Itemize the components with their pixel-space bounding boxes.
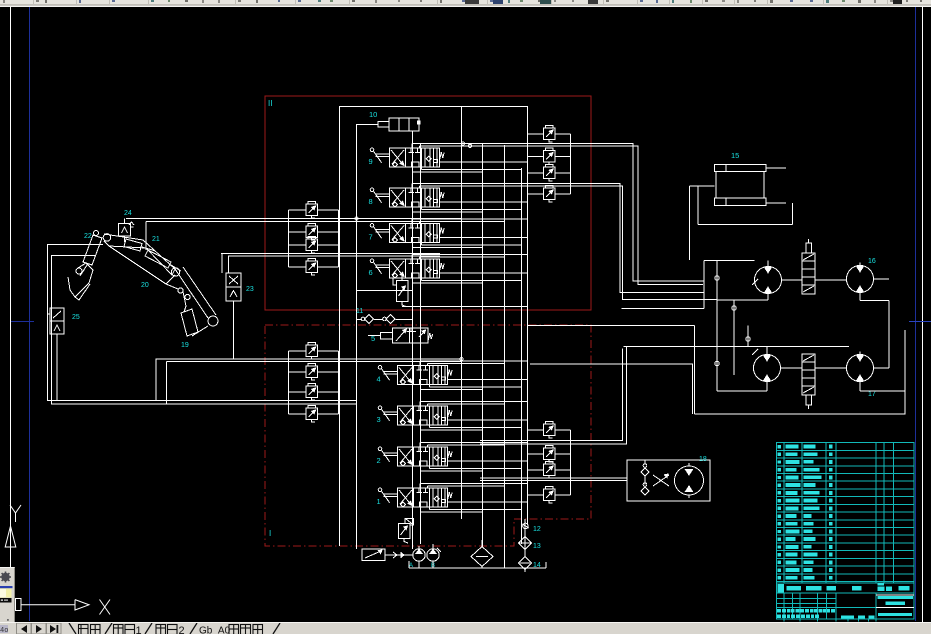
excavator enclosure rect inner	[52, 256, 96, 405]
wire	[289, 231, 307, 233]
paper border left	[10, 7, 12, 598]
wire	[421, 470, 483, 472]
valve 5 port block	[381, 332, 393, 338]
wire to pump 18	[480, 477, 627, 479]
wire	[555, 429, 571, 431]
wire drop	[56, 334, 58, 401]
wire	[318, 266, 339, 268]
wire	[318, 413, 339, 415]
brake valve stem bottom	[806, 395, 812, 405]
wire	[440, 161, 528, 163]
wire	[402, 306, 527, 308]
wire pair to top right	[463, 144, 704, 282]
wire bus x420	[420, 143, 422, 544]
wire	[289, 413, 307, 415]
valve 7 (directional control valve)	[370, 224, 444, 243]
wire bus x356	[356, 124, 358, 549]
wire	[421, 388, 483, 390]
wire stub	[427, 404, 429, 406]
wire	[528, 193, 544, 195]
wire	[624, 346, 850, 348]
valve 25 triangle	[54, 325, 60, 331]
tick	[752, 279, 758, 285]
wire stub	[419, 146, 421, 148]
wire	[318, 244, 339, 246]
wire	[396, 319, 413, 321]
brake valve top	[802, 253, 815, 294]
wire stub	[421, 207, 423, 210]
wire	[644, 476, 646, 485]
wire	[528, 494, 544, 496]
UCS Y axis line	[10, 531, 12, 598]
tank line	[409, 567, 546, 569]
wire	[528, 453, 544, 455]
wire	[420, 145, 505, 147]
wire	[413, 171, 483, 173]
wire	[420, 256, 505, 258]
wire	[555, 193, 571, 195]
wire	[528, 172, 544, 174]
main filter diamond	[471, 547, 493, 567]
title bar cyan	[886, 602, 906, 606]
wire	[704, 260, 755, 262]
wire	[289, 209, 307, 211]
wire to cylinder 21	[145, 222, 147, 240]
wire pair lower	[480, 349, 622, 441]
wire stub	[427, 363, 429, 365]
wire	[413, 211, 483, 213]
wire stub	[411, 219, 413, 224]
palette black strip	[0, 598, 12, 603]
wire pair 2a	[463, 184, 705, 293]
wire	[440, 237, 528, 239]
table total row	[776, 582, 914, 584]
wire stub	[420, 425, 422, 430]
wire bracket	[288, 351, 290, 414]
wire stub	[420, 385, 422, 390]
wire	[530, 364, 693, 414]
wire	[432, 544, 434, 549]
wire	[357, 319, 363, 321]
wire stub	[412, 243, 414, 248]
throttle cross	[653, 475, 669, 486]
parts list table frame	[776, 443, 914, 619]
wire stub	[419, 484, 421, 489]
wire supply line	[126, 218, 461, 220]
valve 3 (directional control valve)	[378, 406, 452, 425]
wire supply line	[228, 255, 440, 257]
tab glyphs 模型	[79, 625, 101, 634]
valve 8 (directional control valve)	[370, 188, 444, 207]
wire stub	[421, 243, 423, 246]
wire bracket	[288, 210, 290, 267]
wire	[716, 261, 718, 392]
paper border right	[922, 7, 924, 622]
wire	[717, 299, 768, 301]
wire stub	[420, 466, 422, 471]
wire	[555, 469, 571, 471]
wire	[874, 278, 889, 280]
wire	[481, 567, 483, 569]
wire	[698, 224, 793, 226]
excavator enclosure rect outer	[48, 245, 104, 401]
wire	[524, 570, 526, 573]
relief valve below valve 1	[399, 524, 411, 539]
wire	[428, 362, 505, 364]
cylinder 19 pin	[178, 288, 183, 293]
title bar cyan	[878, 596, 913, 599]
pump B	[427, 549, 439, 561]
pump 18 circle	[675, 466, 704, 495]
bucket pin circle	[76, 268, 82, 274]
junction	[468, 144, 471, 147]
boom lower chord	[109, 246, 175, 284]
wire stub	[420, 507, 422, 512]
wire stub	[419, 402, 421, 407]
valve 24 triangle	[122, 227, 128, 233]
wire stub	[419, 257, 421, 259]
wire	[767, 297, 769, 301]
valve 10 (3-section pilot valve)	[389, 118, 419, 131]
junction	[355, 217, 358, 220]
tick	[752, 349, 758, 355]
section box I (red dash-dot, notched)	[265, 325, 591, 546]
wire stub in 18	[644, 460, 646, 465]
brake valve bottom	[802, 354, 815, 395]
pump 18 arrow top	[686, 470, 693, 476]
wire	[524, 550, 526, 557]
wire	[859, 296, 861, 301]
relief valve stack II-left	[306, 202, 318, 219]
wire pair 2b	[470, 186, 717, 299]
frame centre tick left	[11, 321, 34, 323]
junction circle	[715, 276, 719, 280]
wire	[422, 209, 522, 211]
bucket outline	[68, 263, 93, 297]
relief valve stack II-right	[544, 126, 556, 143]
link line	[192, 326, 208, 336]
wire	[448, 379, 528, 381]
UCS origin box	[16, 599, 22, 611]
cylinder 15 rod line	[766, 202, 786, 204]
wire stub	[427, 486, 429, 488]
wire	[420, 360, 527, 362]
wire	[766, 347, 768, 352]
elbow circle	[171, 268, 179, 276]
cylinder 22 pin	[94, 231, 99, 236]
cylinder 15	[715, 165, 767, 172]
wire	[318, 350, 339, 352]
wire	[420, 483, 527, 485]
wire	[289, 350, 307, 352]
wire	[422, 244, 522, 246]
palette swatch	[0, 589, 12, 598]
wire bus x527	[527, 106, 529, 525]
relief pilot flag	[405, 519, 414, 526]
wire	[528, 324, 695, 326]
wire	[555, 155, 571, 157]
palette dots	[7, 619, 9, 621]
cylinder 21 body	[124, 239, 142, 251]
wire	[440, 272, 528, 274]
junction circle	[746, 337, 750, 341]
wire	[413, 246, 483, 248]
wire	[528, 429, 544, 431]
wire stub	[412, 207, 414, 212]
wire	[555, 494, 571, 496]
valve 6 (directional control valve)	[370, 259, 444, 278]
cylinder 20 rod	[171, 265, 181, 271]
tab 布局2	[156, 625, 177, 634]
table column lines	[783, 443, 785, 583]
valve 10 port block	[378, 122, 389, 128]
wire	[289, 266, 307, 268]
wire riser	[221, 254, 223, 274]
pilot relief valve bottom left	[362, 549, 385, 561]
valve 5 (directional valve)	[392, 328, 428, 343]
wire	[318, 371, 339, 373]
wire	[448, 460, 528, 462]
wire	[418, 561, 420, 568]
title block subgrid	[783, 593, 785, 619]
wire	[622, 308, 705, 310]
bucket tooth	[75, 284, 90, 300]
wire	[289, 371, 307, 373]
wire bus x504	[504, 145, 506, 568]
wire bracket	[338, 351, 340, 414]
wire	[422, 169, 522, 171]
wire bracket	[570, 430, 572, 495]
relief valve stack I-left	[306, 343, 318, 360]
relief pilot loop	[393, 278, 402, 285]
motor enclosure	[695, 330, 906, 414]
frame centre tick right	[909, 321, 931, 323]
toolbar strip	[0, 0, 931, 5]
wire stub	[412, 278, 414, 283]
wire stub	[419, 221, 421, 223]
wire stub	[427, 445, 429, 447]
relief valve stack I-right	[544, 422, 556, 439]
wire	[374, 319, 383, 321]
wire bus x482	[482, 143, 484, 547]
wire	[48, 313, 51, 315]
wire	[528, 133, 544, 135]
wire stub	[421, 278, 423, 281]
wire stub	[419, 443, 421, 448]
wire	[874, 367, 889, 369]
wire	[420, 442, 527, 444]
nav buttons	[17, 623, 62, 634]
wire	[815, 367, 846, 369]
cooler 14	[519, 557, 532, 570]
wire	[318, 209, 339, 211]
signature row text blocks	[777, 609, 781, 613]
wire	[481, 540, 483, 547]
wire	[448, 501, 528, 503]
wire bus x339	[339, 106, 341, 546]
wire	[420, 220, 505, 222]
wire	[368, 335, 381, 337]
title bar cyan	[878, 613, 912, 616]
motor 16 pair	[755, 264, 782, 297]
wire bracket	[527, 134, 529, 194]
cylinder 20 (stick cylinder)	[145, 250, 171, 268]
wire return line	[51, 403, 357, 405]
wire	[420, 401, 527, 403]
wire stub	[429, 385, 431, 388]
tab 布局1	[114, 625, 135, 634]
wire	[689, 186, 691, 260]
wire	[555, 172, 571, 174]
wire	[703, 261, 705, 309]
table row lines	[776, 449, 914, 451]
wire	[412, 254, 527, 256]
UCS X glyph	[100, 600, 111, 615]
valve 23 (double pilot check)	[226, 273, 241, 301]
tab 标题栏	[229, 625, 263, 634]
wire bus x521	[521, 168, 523, 544]
wire	[412, 143, 527, 145]
title right white separators	[876, 594, 914, 596]
brake valve stem	[806, 243, 812, 253]
wire	[747, 325, 749, 346]
wire	[555, 133, 571, 135]
UCS icon	[5, 505, 110, 615]
wire bracket	[527, 430, 529, 495]
valve 2 (directional control valve)	[378, 447, 452, 466]
wire bus x412	[412, 131, 414, 549]
wire to valve 10	[357, 124, 379, 126]
tool palette fragment	[0, 567, 15, 634]
wire supply line	[156, 358, 462, 360]
wire	[766, 385, 768, 392]
wire	[412, 183, 527, 185]
cylinder 22 body	[83, 235, 102, 265]
wire riser	[228, 256, 230, 273]
wire	[733, 300, 735, 375]
pump A	[413, 549, 425, 561]
palette blue divider	[0, 586, 13, 588]
wire block top	[340, 106, 528, 108]
wire	[767, 261, 769, 264]
cylinder 15 rod line	[766, 167, 786, 169]
wire	[428, 444, 505, 446]
wire	[440, 201, 528, 203]
UCS Y arrowhead	[5, 526, 16, 547]
wire	[421, 511, 483, 513]
wire	[888, 301, 890, 369]
wire	[528, 155, 544, 157]
valve 23 triangle	[230, 291, 237, 298]
frame line right blue	[915, 7, 917, 621]
wire drop	[166, 362, 168, 405]
wire	[357, 290, 413, 292]
wire bracket	[338, 210, 340, 267]
wire	[555, 453, 571, 455]
wire supply line	[146, 221, 461, 223]
section box II (red dash-dot)	[265, 96, 591, 310]
junction circle	[715, 361, 719, 365]
motor 17 pair	[754, 352, 781, 385]
junction	[461, 142, 464, 145]
wire	[792, 203, 794, 225]
pump unit 18 enclosure	[627, 460, 710, 501]
wire bus x461	[461, 106, 463, 519]
wire	[859, 382, 861, 391]
wire with arrows	[385, 554, 413, 556]
wire supply line	[221, 253, 440, 255]
UCS Y glyph	[10, 505, 21, 513]
wire	[697, 186, 699, 225]
junction	[460, 357, 463, 360]
valve 9 (directional control valve)	[370, 148, 444, 167]
wire	[815, 279, 846, 281]
UCS X arrowhead	[75, 600, 89, 610]
wire	[524, 519, 526, 537]
wire stub	[412, 167, 414, 172]
wire	[430, 468, 522, 470]
stick link lines	[175, 269, 208, 318]
cylinder 21 rod	[142, 247, 154, 251]
wire stub	[429, 466, 431, 469]
wire	[528, 469, 544, 471]
wire	[422, 280, 522, 282]
valve 25 (check valve)	[50, 308, 64, 334]
pump 18 arrow bottom	[686, 486, 693, 492]
wire stub	[419, 361, 421, 366]
UCS X axis line	[21, 604, 75, 606]
tab strip slashes	[69, 623, 280, 634]
frame line left blue	[29, 7, 31, 621]
check diamonds inside 18	[641, 468, 649, 476]
wire stub	[411, 144, 413, 149]
wire	[289, 244, 307, 246]
wire bracket	[570, 134, 572, 194]
wire stub	[429, 425, 431, 428]
wire drop	[233, 301, 235, 359]
wire drop	[694, 325, 696, 414]
cylinder 19 rod	[184, 306, 186, 312]
filter 13	[519, 537, 532, 550]
link line	[183, 292, 186, 306]
wire	[690, 185, 715, 187]
wire	[289, 391, 307, 393]
wire	[717, 390, 767, 392]
wire	[428, 403, 505, 405]
wire	[448, 419, 528, 421]
wire stub	[429, 507, 431, 510]
wire	[318, 391, 339, 393]
wire	[430, 509, 522, 511]
wire stub	[411, 184, 413, 189]
wire	[413, 282, 483, 284]
wire	[428, 485, 505, 487]
link pin	[185, 294, 190, 299]
wire stub	[411, 255, 413, 260]
valve 4 (directional control valve)	[378, 366, 452, 385]
wire stub	[421, 167, 423, 170]
wire	[412, 218, 527, 220]
wire	[418, 546, 420, 549]
wire	[318, 231, 339, 233]
wire	[430, 427, 522, 429]
wire drop	[155, 359, 157, 401]
wire	[860, 300, 889, 302]
wire	[421, 429, 483, 431]
wire	[145, 222, 147, 251]
wire	[432, 561, 434, 568]
wire valve24 to boom	[124, 236, 126, 242]
